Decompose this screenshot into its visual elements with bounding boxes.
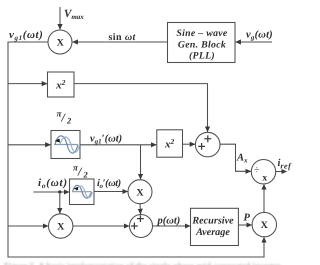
svg-text:X: X <box>261 220 269 231</box>
svg-text:X: X <box>136 187 144 198</box>
svg-text:x: x <box>262 174 267 184</box>
svg-text:p(ωt): p(ωt) <box>157 216 181 227</box>
svg-text:Sine – wave: Sine – wave <box>176 28 228 39</box>
svg-text:Recursive: Recursive <box>191 216 234 227</box>
svg-text:/: / <box>77 165 83 179</box>
svg-text:io(ωt): io(ωt) <box>38 177 68 190</box>
svg-text:vg1(ωt): vg1(ωt) <box>9 29 43 42</box>
svg-text:X: X <box>57 222 65 233</box>
svg-text:Figure 5. A basic implementati: Figure 5. A basic implementation of the … <box>4 261 280 265</box>
svg-text:÷: ÷ <box>254 165 260 176</box>
svg-text:P: P <box>244 213 251 224</box>
svg-text:x2: x2 <box>164 137 175 151</box>
svg-text:/: / <box>61 111 67 125</box>
svg-text:Ax: Ax <box>236 153 248 165</box>
svg-text:vg1′(ωt): vg1′(ωt) <box>90 134 122 146</box>
svg-text:sin ωt: sin ωt <box>109 32 137 43</box>
svg-text:2: 2 <box>66 116 72 126</box>
svg-text:2: 2 <box>83 170 89 180</box>
svg-text:x2: x2 <box>55 78 66 92</box>
svg-text:io′(ωt): io′(ωt) <box>97 178 121 190</box>
svg-text:vg(ωt): vg(ωt) <box>246 30 273 42</box>
svg-text:Average: Average <box>195 227 230 238</box>
svg-text:(PLL): (PLL) <box>189 51 215 62</box>
svg-text:Gen. Block: Gen. Block <box>178 39 226 50</box>
svg-text:iref: iref <box>278 158 293 171</box>
svg-text:X: X <box>57 38 65 49</box>
svg-text:Vmax: Vmax <box>64 8 84 21</box>
